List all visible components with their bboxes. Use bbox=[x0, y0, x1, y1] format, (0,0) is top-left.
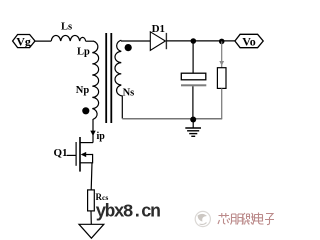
earth ground (secondary) bbox=[185, 120, 201, 137]
drain lead bbox=[80, 142, 93, 144]
MOSFET Q1 bbox=[54, 137, 94, 172]
load resistor R bbox=[217, 68, 226, 89]
node junction dot on rail bbox=[190, 117, 196, 123]
wire Vg to Ls bbox=[35, 40, 51, 42]
channel line bbox=[79, 137, 81, 172]
wire cap branch bbox=[192, 41, 194, 73]
wire secondary bottom bbox=[121, 96, 123, 119]
bottom rail (secondary ground rail) bbox=[122, 118, 222, 120]
wire diode to Vo bbox=[166, 40, 235, 42]
diode D1 bbox=[150, 23, 166, 50]
source lead bbox=[80, 162, 93, 164]
char 5 zi bbox=[265, 214, 274, 225]
transformer secondary winding Ns bbox=[115, 40, 122, 96]
wire source to Rcs bbox=[90, 163, 93, 190]
body arrow bbox=[82, 154, 93, 156]
source/body tie vertical bbox=[92, 154, 94, 164]
output terminal Vo bbox=[235, 34, 263, 48]
gate line bbox=[75, 142, 77, 166]
transformer primary winding Lp/Np bbox=[92, 41, 98, 119]
capacitor C (top plate) bbox=[181, 73, 206, 80]
watermark text (CJK logotype 芯朋微电子 drawn as shapes) bbox=[218, 213, 274, 225]
char 1 xin bbox=[218, 213, 230, 224]
wire transformer to MOSFET drain bbox=[92, 119, 94, 143]
char 4 dian bbox=[255, 213, 264, 225]
wire load branch top bbox=[221, 41, 223, 67]
wire load branch bottom bbox=[221, 88, 223, 118]
wire cap to rail bbox=[192, 86, 194, 118]
node junction dot (cap branch) bbox=[191, 38, 197, 44]
current arrow ip bbox=[90, 131, 95, 136]
char 3 wei bbox=[242, 213, 255, 225]
primary polarity dot bbox=[82, 107, 89, 114]
wire Ls to transformer bbox=[86, 40, 93, 42]
transformer core bbox=[105, 33, 107, 123]
node junction dot (load branch) bbox=[219, 39, 225, 45]
chassis ground triangle bbox=[79, 224, 104, 238]
secondary polarity dot bbox=[125, 44, 132, 51]
wire Rcs to ground bbox=[90, 211, 92, 224]
current arrow on load branch bbox=[219, 61, 224, 66]
wire secondary top to diode bbox=[121, 40, 150, 42]
watermark logo icon bbox=[195, 211, 210, 226]
resistor Rcs bbox=[88, 190, 95, 211]
input terminal Vg bbox=[13, 34, 35, 48]
gate lead bbox=[67, 154, 76, 156]
char 2 peng bbox=[231, 214, 243, 225]
capacitor C (bottom plate) bbox=[181, 84, 206, 86]
inductor Ls bbox=[51, 35, 85, 41]
